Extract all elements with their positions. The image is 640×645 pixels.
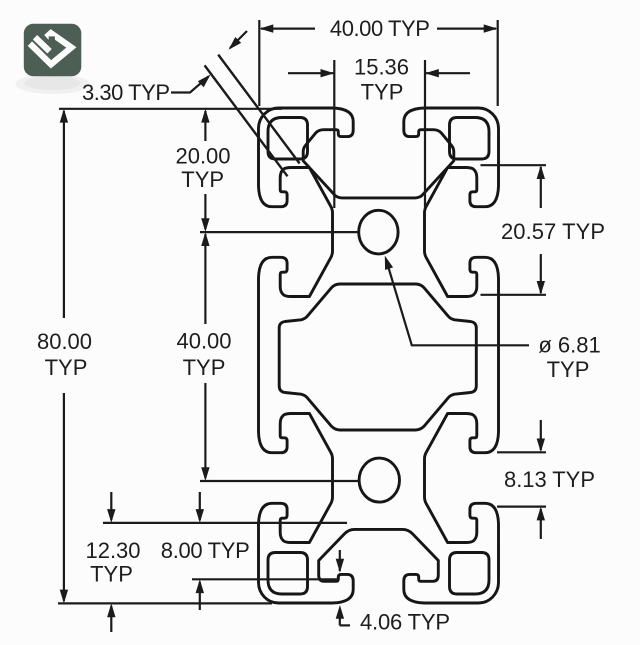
extrusion outer outline with T-slots	[259, 108, 499, 603]
corner chamber top-left	[268, 118, 308, 160]
logo mark notch	[49, 36, 55, 42]
svg-text:3.30 TYP: 3.30 TYP	[82, 80, 170, 105]
arrowheads 20.00	[201, 109, 209, 123]
logo shadow	[16, 74, 90, 94]
arrowhead 6.81 leader	[385, 256, 393, 270]
dim 12.30 arrow shafts	[110, 492, 112, 520]
svg-text:TYP: TYP	[181, 167, 224, 192]
dim 20.00 / 40.00 dimension line shafts	[204, 111, 206, 141]
logo square	[24, 24, 82, 76]
svg-text:15.36: 15.36	[354, 55, 409, 80]
svg-text:TYP: TYP	[90, 562, 133, 587]
arrowheads 4.06	[336, 559, 344, 573]
svg-text:TYP: TYP	[45, 355, 88, 380]
dim 40.00 TYP dimension line	[261, 28, 315, 30]
dim 3.30 TYP tangent lines	[218, 55, 299, 164]
svg-text:40.00 TYP: 40.00 TYP	[330, 16, 430, 41]
svg-text:TYP: TYP	[183, 355, 226, 380]
arrowheads 8.00	[196, 509, 204, 523]
dim 15.36 TYP arrow lines	[288, 72, 334, 74]
leader 6.81	[386, 260, 529, 345]
arrowheads 12.30	[107, 509, 115, 523]
central cavity	[279, 284, 476, 430]
dim 3.30 TYP leader lines	[230, 31, 247, 48]
center bore bottom	[359, 458, 399, 502]
arrowheads 20.57	[537, 165, 545, 179]
arrowheads 15.36	[321, 69, 335, 77]
arrowheads 3.30	[229, 37, 242, 50]
svg-text:4.06 TYP: 4.06 TYP	[360, 610, 450, 635]
dim 20.00 top extension line	[59, 108, 282, 110]
svg-text:ø 6.81: ø 6.81	[538, 333, 600, 358]
dim 12.30 / 8.00 top extension	[103, 522, 347, 524]
dim 8.00 arrow shafts	[199, 492, 201, 520]
svg-text:20.57 TYP: 20.57 TYP	[501, 219, 605, 244]
dim 20.57 extensions	[481, 164, 547, 166]
svg-text:TYP: TYP	[361, 80, 404, 105]
corner chamber bottom-right	[450, 553, 490, 595]
arrowheads 40.00 vert	[201, 232, 209, 246]
logo mark middle band	[35, 37, 50, 51]
dim 80.00 shaft	[63, 111, 65, 318]
svg-text:80.00: 80.00	[37, 329, 92, 354]
center line lower bore	[200, 480, 359, 482]
center line upper bore	[200, 231, 358, 233]
dim 8.00 extension	[192, 578, 338, 580]
dim 8.13 extensions	[497, 451, 546, 453]
dim 4.06 arrow shafts	[339, 550, 341, 571]
corner chamber top-right	[450, 118, 490, 160]
svg-text:TYP: TYP	[547, 357, 590, 382]
logo mark frame band	[30, 33, 72, 64]
svg-text:20.00: 20.00	[175, 143, 230, 168]
dim 15.36 TYP extension lines	[333, 60, 335, 208]
arrowheads 80.00	[60, 109, 68, 123]
center bore top	[359, 210, 398, 254]
svg-text:8.13 TYP: 8.13 TYP	[504, 467, 595, 492]
dim 20.57 shafts	[540, 167, 542, 208]
svg-text:40.00: 40.00	[176, 329, 231, 354]
svg-text:12.30: 12.30	[85, 538, 140, 563]
corner chamber bottom-left	[268, 553, 308, 595]
dim 40.00 TYP extension lines	[258, 20, 260, 106]
dim 80.00 bottom extension	[58, 602, 272, 604]
arrowheads 40.00	[260, 24, 274, 32]
dim 8.13 arrow shafts	[540, 420, 542, 450]
svg-text:8.00 TYP: 8.00 TYP	[161, 538, 250, 563]
arrowheads 8.13	[537, 439, 545, 453]
